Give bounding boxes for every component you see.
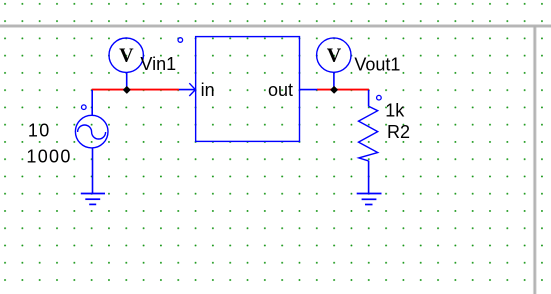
- resistor R2 zigzag body: [359, 106, 378, 161]
- svg-text:R2: R2: [387, 122, 410, 142]
- label Vout1: [354, 54, 400, 74]
- svg-text:10: 10: [28, 121, 51, 141]
- window splitter vertical gray bar: [533, 26, 537, 294]
- junction node dot at Vout1: [331, 87, 337, 93]
- wire W1: Vin1 source to box "in" (red): [92, 89, 179, 91]
- subcircuit block X1 node marker o: [178, 38, 183, 43]
- value label 1000: [26, 146, 71, 166]
- svg-text:V: V: [327, 45, 342, 67]
- ground GND2: [357, 194, 382, 205]
- window splitter horizontal gray bar: [0, 24, 551, 28]
- voltage source V1 sine glyph: [78, 125, 106, 139]
- voltmeter Vin1 lead wire: [126, 72, 128, 89]
- voltage source V1 bottom lead: [92, 148, 94, 194]
- value label 1k: [385, 101, 405, 121]
- voltmeter Vout1 letter V: [327, 45, 342, 67]
- svg-text:Vout1: Vout1: [354, 54, 400, 74]
- ground GND1: [81, 194, 105, 205]
- junction node dot at Vin1: [124, 87, 130, 93]
- pin "out" lead: [300, 89, 318, 91]
- svg-text:V: V: [119, 45, 134, 67]
- voltage source V1 top lead: [91, 90, 93, 116]
- resistor R2 top lead: [368, 90, 370, 107]
- voltmeter Vin1 letter V: [119, 45, 134, 67]
- svg-text:Vin1: Vin1: [140, 54, 176, 74]
- label Vin1: [140, 54, 176, 74]
- resistor R2 node marker o: [377, 95, 382, 100]
- subcircuit block X1 rectangle: [196, 37, 300, 142]
- pin label in: [201, 80, 215, 100]
- svg-text:1000: 1000: [26, 146, 71, 166]
- voltage source V1 positive node marker o: [82, 105, 87, 110]
- value label 10: [28, 121, 51, 141]
- svg-text:out: out: [268, 80, 293, 100]
- voltmeter U-Vin1 circle: [109, 38, 143, 72]
- pin "in" lead with arrowhead: [179, 83, 196, 96]
- pin label out: [268, 80, 293, 100]
- reference label R2: [387, 122, 410, 142]
- voltmeter Vout1 lead wire: [333, 72, 335, 89]
- resistor R2 bottom lead: [368, 161, 370, 194]
- svg-text:1k: 1k: [385, 101, 405, 121]
- wire W2: box "out" to resistor R2 top (red): [317, 89, 369, 91]
- voltage source V1 circle: [75, 115, 108, 148]
- svg-text:in: in: [201, 80, 215, 100]
- voltmeter U-Vout1 circle: [317, 38, 351, 72]
